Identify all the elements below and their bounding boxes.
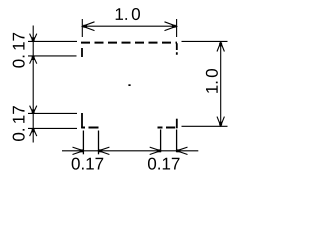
extension line left C (0.17 above bottom) <box>28 112 77 114</box>
right tab left edge / extension line <box>160 130 162 153</box>
package outline: left edge top dash <box>81 48 83 57</box>
left dimension leader line with four arrows <box>30 26 37 143</box>
extension line top-right corner (vertical) <box>176 19 178 37</box>
center mark <box>128 84 130 86</box>
top dimension line 1.0 with arrows <box>83 22 177 31</box>
top dimension text 1.0 <box>116 8 140 20</box>
extension line right-bottom (horizontal) <box>182 125 228 127</box>
package outline: right edge bottom dash <box>176 119 178 129</box>
package outline: left edge bottom dash <box>81 113 83 128</box>
extension line left B (0.17 below top) <box>28 55 77 57</box>
left tab right edge / extension line <box>98 131 100 155</box>
bottom dimension line with four arrows <box>62 147 198 154</box>
left tab left edge / extension line <box>82 131 84 155</box>
package outline: right edge top dashes <box>176 43 178 55</box>
left dimension text 0.17 lower (rotated) <box>13 106 25 141</box>
package outline: bottom edge dashes <box>81 127 175 129</box>
extension line top-left corner (vertical) <box>81 19 83 37</box>
extension line left D (bottom edge level) <box>28 127 77 129</box>
right dimension line 1.0 with arrows <box>217 42 224 126</box>
right tab right edge / extension line <box>176 130 178 153</box>
left dimension text 0.17 upper (rotated) <box>13 33 25 68</box>
bottom-right dimension text 0.17 <box>148 158 180 170</box>
extension line left A (top edge level) <box>28 40 77 42</box>
extension line right-top (horizontal) <box>182 40 228 42</box>
bottom-left dimension text 0.17 <box>72 158 104 170</box>
right dimension text 1.0 (rotated) <box>206 69 218 93</box>
package outline: top edge (dashed) <box>81 42 177 44</box>
